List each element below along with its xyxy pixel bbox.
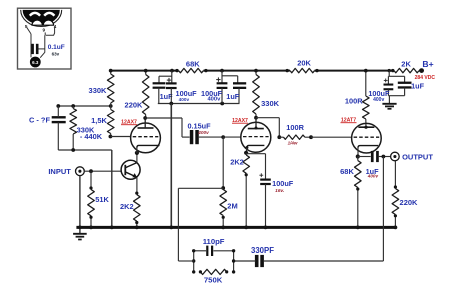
capacitor 1uF (pair2 right) [233, 82, 246, 103]
dot tube3 plate [364, 126, 367, 129]
wire feedback box to left riser [178, 260, 193, 262]
label 2K2 first [120, 202, 134, 211]
wire output jack down [394, 161, 396, 189]
wire node-A horizontal (cap C to 330K/1.5K junction) y=106 [58, 105, 110, 107]
junction dot 2M at rail [221, 226, 225, 230]
svg-text:C - ?F: C - ?F [29, 116, 50, 125]
wire feedback left riser [177, 188, 179, 261]
resistor 330K (V2 plate) [253, 71, 260, 118]
junction dot tube1 cathode/collector [135, 151, 139, 155]
wire B+ filter top leads [388, 71, 404, 84]
label 2M [227, 202, 237, 211]
wire 2M top lead (V2 grid down) [222, 137, 224, 188]
inset wire right down to 6.3 [40, 35, 45, 57]
junction dot input ground corner [78, 226, 82, 230]
wire Q1 emitter down [136, 177, 138, 193]
label 12AX7 V1 [121, 119, 137, 125]
dot 68K left [175, 69, 178, 72]
dot box top-right [232, 249, 235, 252]
svg-text:20K: 20K [297, 59, 311, 68]
junction dot filter pair1 at rail [170, 69, 174, 73]
wire filter pair2 top leads [222, 71, 238, 84]
junction dot 100R right [309, 135, 313, 139]
tube V2 12AX7 [241, 122, 271, 152]
resistor 330K (upper divider) [107, 71, 114, 106]
wire filter caps ground bus y=103.5 [158, 103, 240, 105]
resistor 100R 1/4w (horizontal) [279, 135, 311, 139]
label 0.15uF [187, 122, 211, 131]
ground symbol main (below input) [73, 229, 87, 240]
dot 2K2 top lead [135, 192, 138, 195]
junction dot 330K top at rail [109, 69, 113, 73]
inset socket notch right [43, 20, 53, 25]
label 12AT7 V3 [341, 117, 357, 123]
resistor 330K - 440K [70, 106, 77, 150]
label 1,5K [91, 116, 107, 125]
label 330K -440K line2 [80, 132, 103, 141]
capacitor 0.15uF 400v [182, 130, 223, 144]
terminal OUTPUT jack [391, 152, 400, 161]
label 2K [401, 60, 411, 69]
inset pin 9 label [43, 27, 46, 32]
junction dot V1 plate node [143, 116, 147, 120]
capacitor 1uF (pair1 left) [153, 82, 166, 103]
junction dot 100R left [277, 135, 281, 139]
dot box mid-right [232, 259, 235, 262]
label 1uF B+ [411, 82, 425, 91]
wire tube2 plate lead [255, 118, 257, 129]
svg-text:16v.: 16v. [275, 188, 284, 194]
capacitor 100uF 400v (pair2 left) with + sign [216, 77, 227, 103]
wire feedback horizontal right segment [264, 260, 384, 262]
dot 20K right [315, 69, 318, 72]
wire V2 grid [223, 136, 241, 138]
transistor Q1 circle [121, 160, 140, 179]
wire tube2 cathode to bypass cap [246, 154, 265, 179]
label 400v pair1 [179, 97, 190, 102]
label 100uF 16v line1 [272, 179, 294, 188]
junction dot tube3 cathode node [356, 154, 360, 158]
label 68K rail [186, 60, 200, 69]
svg-text:1,5K: 1,5K [91, 116, 107, 125]
label 100R vertical [345, 97, 363, 106]
wire tube1 cathode lead [136, 147, 138, 153]
junction dot 68K-2 at rail [356, 226, 360, 230]
junction dot filter pair2 at rail [220, 69, 224, 73]
label 220K output [400, 198, 419, 207]
junction dot V2 plate node [254, 116, 258, 120]
junction dot B+ filter left at rail [388, 69, 391, 72]
inset wire pin4 route [46, 27, 55, 36]
svg-text:400v: 400v [373, 97, 384, 103]
inset wire pin5 to cap left [27, 28, 31, 58]
resistor 20K (rail) [290, 68, 315, 72]
resistor 750K (feedback box bottom) [200, 269, 226, 274]
label 110pF [203, 237, 225, 246]
resistor 220K (output load) [392, 189, 399, 228]
svg-text:750K: 750K [204, 276, 223, 285]
label 68K cathode [340, 167, 354, 176]
inset socket notch left [32, 20, 42, 25]
label 51K [95, 195, 109, 204]
svg-text:100R: 100R [345, 97, 363, 106]
dot 68K right [204, 69, 207, 72]
junction dot 220K top at rail [144, 69, 148, 73]
label 20K [297, 59, 311, 68]
svg-text:400v: 400v [179, 97, 190, 102]
svg-text:100uF: 100uF [272, 179, 294, 188]
inset heater wiring box [18, 8, 72, 69]
svg-text:9: 9 [43, 27, 46, 32]
dot 51K bottom lead [89, 216, 92, 219]
svg-text:284 VDC: 284 VDC [415, 75, 436, 81]
junction dot 220K-2 at rail end [394, 226, 398, 230]
wire lower node horizontal y=150 [58, 149, 112, 151]
svg-text:1/4w: 1/4w [288, 141, 298, 146]
resistor 220K (V1 plate) [142, 71, 149, 118]
label 220K [125, 100, 144, 109]
label INPUT [48, 167, 71, 176]
svg-text:51K: 51K [95, 195, 109, 204]
inset wire pin9 stub [44, 32, 46, 35]
svg-text:330K: 330K [89, 86, 108, 95]
junction dot 330K-440K bottom [71, 148, 75, 152]
svg-text:63v: 63v [52, 51, 60, 56]
label 2K2 second [230, 157, 244, 166]
capacitor 1uF 400v (output) [358, 151, 391, 162]
node B+ terminal dot [419, 68, 424, 73]
svg-text:- 440K: - 440K [80, 132, 103, 141]
junction dot B+ filter right at rail [391, 69, 394, 72]
dot 2M bottom lead [222, 216, 225, 219]
wire filter ground drop x=171.3 [170, 104, 172, 228]
label 100uF pair2 [201, 89, 223, 98]
resistor 2M [220, 190, 227, 228]
junction dot 2M top / feedback node [221, 186, 225, 190]
resistor 1,5K [107, 106, 114, 137]
dot box top-left [192, 249, 195, 252]
junction dot 2K2 at rail [135, 226, 139, 230]
junction dot 100R-v top at rail [364, 69, 368, 73]
junction dot 51K at rail [89, 226, 93, 230]
resistor 68K (V3 cathode) [355, 157, 362, 228]
svg-text:2K2: 2K2 [120, 202, 134, 211]
label 100uF B+ [368, 89, 390, 98]
svg-text:330K: 330K [261, 99, 280, 108]
junction dot 330K-2 top at rail [254, 69, 258, 73]
label 1uF output [366, 167, 380, 176]
wire feedback top horizontal to 2M node [178, 187, 223, 189]
tube V3 12AT7 [352, 123, 382, 153]
svg-text:INPUT: INPUT [48, 167, 71, 176]
svg-text:OUTPUT: OUTPUT [402, 153, 433, 162]
junction dot 330K/1,5K divider node [109, 104, 113, 108]
junction dot 1,5K bottom / grid node [109, 135, 113, 139]
junction dot tube2 cathode node [244, 151, 248, 155]
junction dot bypass cap at rail [264, 226, 268, 230]
svg-text:1uF: 1uF [226, 92, 240, 101]
svg-text:2M: 2M [227, 202, 237, 211]
wire ground bottom rail [76, 226, 395, 229]
wire 330PF to RC box [234, 260, 256, 262]
svg-text:110pF: 110pF [203, 237, 225, 246]
label 400v pair2 [207, 96, 221, 102]
dot 20K left [286, 69, 289, 72]
capacitor 100uF 16v (V2 cathode bypass) with + [259, 173, 270, 227]
terminal INPUT jack [76, 167, 85, 176]
inset label 0.1uF [48, 44, 65, 51]
svg-text:100R: 100R [286, 123, 304, 132]
svg-text:330PF: 330PF [251, 246, 274, 255]
label 1uF pair1 [160, 92, 174, 101]
wire filter pair1 top leads [159, 71, 172, 84]
wire input jack down to ground rail [79, 176, 81, 228]
wire B+ filter bottom join [388, 96, 404, 104]
dot tube2 plate [255, 127, 258, 130]
label 1uF pair2 [226, 92, 240, 101]
label 330K -440K line1 [77, 125, 95, 134]
capacitor 100uF 400v (B+ filter) with + [384, 79, 394, 96]
dot 220K-2 bottom lead [394, 214, 397, 217]
svg-text:0.1uF: 0.1uF [48, 44, 65, 51]
label 330PF [251, 246, 274, 255]
inset tube socket outline arc [21, 10, 62, 27]
label 1/4w [288, 141, 298, 146]
inset capacitor 0.1uF 63v [31, 44, 45, 54]
label 100uF pair1 [176, 89, 198, 98]
dot 750K right [225, 270, 228, 273]
svg-text:68K: 68K [340, 167, 354, 176]
RC box right vertical [233, 251, 235, 272]
svg-text:400v: 400v [367, 174, 379, 179]
dot 750K left [199, 270, 202, 273]
svg-text:68K: 68K [186, 60, 200, 69]
junction dot V2 grid node [221, 135, 225, 139]
label C - ?F [29, 116, 50, 125]
label 12AX7 V2 [232, 118, 248, 124]
capacitor 110pF (feedback box top) [194, 246, 234, 256]
wire input to transistor base [84, 170, 121, 172]
dot 220K-2 top lead [394, 185, 397, 188]
junction dot 2K2-2 at rail [244, 226, 248, 230]
svg-text:B+: B+ [422, 59, 433, 69]
capacitor 100uF 400v (pair1 right) with + sign [166, 78, 177, 104]
capacitor 330PF (feedback) [255, 255, 264, 267]
wire 100R to V3 grid [311, 136, 352, 138]
junction dot output/feedback node [382, 155, 386, 159]
dot 68K-2 bottom lead [356, 187, 359, 190]
wire V1 plate node to coupling cap corner [145, 118, 182, 137]
junction dot at C-?F top [56, 104, 60, 108]
junction dot filter ground at rail [169, 226, 173, 230]
tube V1 12AX7 [131, 123, 161, 153]
label 16v. [275, 188, 284, 194]
inset pin 4 label [54, 24, 57, 29]
junction dot input/51K [89, 169, 93, 173]
svg-text:1uF: 1uF [411, 82, 425, 91]
ground symbol B+ filter [382, 104, 396, 109]
wire tube2 cathode lead [245, 148, 248, 153]
label 100R horizontal [286, 123, 304, 132]
label OUTPUT [402, 153, 433, 162]
wire feedback vertical from output [382, 157, 384, 262]
dot box mid-left [192, 259, 195, 262]
resistor 100R (V3 plate, vertical) [363, 71, 370, 128]
wire tube1 grid [110, 136, 131, 138]
svg-text:400v: 400v [207, 96, 221, 102]
dot box bottom-left [192, 270, 195, 273]
wire B+ top rail segment right (20K to 2K) [315, 70, 395, 72]
svg-text:2K2: 2K2 [230, 157, 244, 166]
wire left bias drop x=111.8 to ground rail [111, 150, 113, 227]
junction dot ground bus left drop [169, 102, 173, 106]
svg-text:400v: 400v [197, 130, 209, 136]
label B+ [422, 59, 433, 69]
transistor Q1 collector stroke [126, 163, 137, 168]
inset 6.3V heater terminal [30, 57, 41, 68]
svg-text:0.15uF: 0.15uF [187, 122, 211, 131]
wire B+ top rail segment middle (68K to 20K) [203, 70, 290, 72]
wire tube1 plate lead [144, 118, 146, 128]
resistor 2K2 (V2 cathode) [243, 155, 250, 227]
junction dot ground bus right cap [220, 102, 224, 106]
resistor 2K (rail to B+) [394, 68, 419, 72]
dot 2K2 bottom lead [135, 221, 138, 224]
capacitor 1uF (B+ filter) [398, 82, 412, 96]
label 400v B+ [373, 97, 384, 103]
inset tube socket black half-disc [23, 10, 60, 25]
svg-text:220K: 220K [400, 198, 419, 207]
wire B+ rail stub after 2K to B+ terminal [419, 70, 422, 72]
capacitor C - ?F [52, 106, 66, 150]
label 400v of 0.15uF [197, 130, 209, 136]
label 400v output [367, 174, 379, 179]
dot tube2 cathode hook [245, 146, 248, 149]
wire B+ top rail segment left (330K top to 68K) [111, 70, 179, 72]
resistor 2K2 (Q1 emitter) [134, 195, 141, 228]
junction dot left bias drop at rail [110, 226, 114, 230]
svg-text:220K: 220K [125, 100, 144, 109]
inset heater filament white arcs [30, 13, 55, 16]
wire Q1 collector to tube1 cathode [136, 153, 138, 163]
inset label 63v [52, 51, 60, 56]
svg-text:2K: 2K [401, 60, 411, 69]
resistor 51K [88, 171, 95, 227]
resistor 68K (rail) [179, 68, 204, 72]
transistor Q1 base bar [124, 165, 126, 175]
wire V2 plate to 100R corner [256, 118, 279, 138]
dot 51K top lead [89, 186, 92, 189]
label 284 VDC [415, 75, 436, 81]
inset pin 5 label [25, 24, 28, 29]
junction dot 330K-440K top [71, 104, 75, 108]
label 330K stage2 [261, 99, 280, 108]
wire tube3 cathode lead [357, 148, 359, 157]
svg-text:6.3: 6.3 [32, 60, 39, 65]
transistor Q1 emitter stroke with arrow [126, 172, 138, 178]
dot box bottom-right [232, 270, 235, 273]
label 330K upper [89, 86, 108, 95]
label 750K [204, 276, 223, 285]
RC box left vertical [193, 251, 195, 272]
dot 2K2-2 bottom lead [245, 173, 248, 176]
